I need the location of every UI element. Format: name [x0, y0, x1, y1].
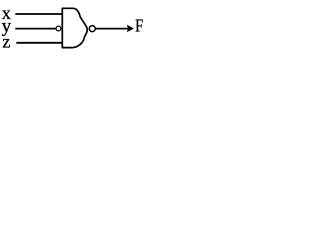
NAND gate U1 body: [62, 8, 87, 47]
wire input z: [16, 42, 63, 44]
arrowhead: [127, 25, 134, 33]
svg-text:z: z: [2, 32, 10, 52]
wire input x: [15, 13, 63, 15]
wire output: [96, 28, 128, 30]
wire input y: [15, 28, 55, 30]
output bubble: [89, 26, 95, 32]
svg-text:F: F: [135, 16, 143, 36]
inverter bubble on y input: [56, 26, 61, 31]
